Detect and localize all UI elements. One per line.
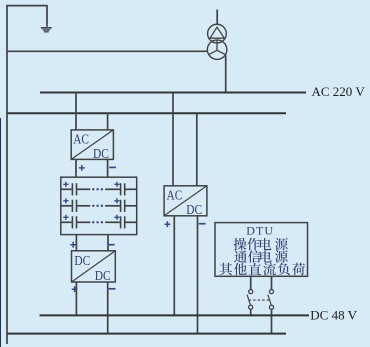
converter U2 (DC/DC) [72, 251, 116, 283]
svg-text:DC: DC [95, 268, 111, 283]
svg-text:AC: AC [167, 187, 183, 202]
label DC 48 V [310, 307, 357, 322]
svg-text:DC 48 V: DC 48 V [310, 307, 357, 322]
wire: U3 + output to DC bus [173, 216, 175, 316]
bus DC 48 V [40, 314, 310, 316]
battery bank box [61, 177, 137, 234]
label DTU [246, 224, 274, 238]
svg-text:AC 220 V: AC 220 V [312, 84, 366, 99]
battery string row 2 [61, 198, 137, 212]
wire: U2 + output to DC bus [75, 282, 77, 315]
wire: transformer to AC bus [225, 55, 227, 92]
bus AC pole 2 [7, 112, 286, 114]
svg-text:AC: AC [73, 131, 89, 146]
wire: U3 AC input right [196, 113, 198, 186]
wire: switch left pole to DC bus [250, 309, 252, 315]
svg-text:DC: DC [186, 202, 202, 217]
label + (U1 output) [79, 165, 85, 171]
wire: U1 AC input right [107, 113, 109, 130]
bus AC 220 V [40, 92, 306, 94]
rectifier U3 (AC/DC) [164, 186, 207, 217]
label - (U2 input) [108, 244, 115, 246]
label - (U1 output) [109, 166, 116, 168]
wire: U3 - output to return bus [197, 216, 199, 334]
switch S double-pole [247, 290, 273, 310]
wire: U1 + output [75, 159, 77, 177]
wire: U2 - output to return bus [107, 282, 109, 334]
DTU load box [215, 223, 308, 277]
label + (U2 output) [72, 286, 78, 292]
label + (U3 output) [165, 221, 171, 227]
label 通信电源 [234, 250, 287, 263]
wire: left riser to transformer [7, 50, 208, 52]
transformer T1 [207, 10, 227, 60]
bus DC return [7, 333, 286, 335]
label - (U2 output) [109, 288, 116, 290]
rectifier U1 (AC/DC) [71, 130, 113, 161]
svg-text:DC: DC [74, 253, 90, 268]
battery string row 3 [61, 215, 137, 229]
wire: U3 AC input left [172, 93, 174, 186]
svg-text:DTU: DTU [246, 224, 274, 238]
label AC 220 V [312, 84, 366, 99]
ground [41, 27, 52, 33]
wire: left vertical riser [6, 5, 8, 344]
wire: battery + to U2 [75, 235, 77, 251]
label 其他直流负荷 [220, 263, 305, 276]
wire: U1 - output [107, 159, 109, 177]
label - (U3 output) [199, 223, 206, 225]
wire: switch right pole to return bus [271, 309, 273, 334]
wire: U1 AC input left [75, 93, 77, 130]
wire: battery - to U2 [107, 235, 109, 251]
label + (U2 input) [70, 242, 76, 248]
wire: top branch to ground [6, 5, 47, 27]
wire: DTU drop left [250, 276, 252, 289]
svg-text:DC: DC [93, 146, 109, 161]
wire: DTU drop right [271, 276, 273, 289]
battery string row 1 [61, 182, 137, 196]
label 操作电源 [234, 238, 288, 250]
